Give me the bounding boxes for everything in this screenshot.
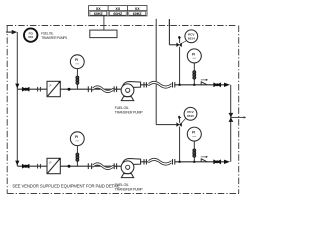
svg-text:F: F <box>50 84 52 88</box>
svg-text:XX: XX <box>135 7 140 11</box>
svg-text:F: F <box>50 161 52 165</box>
svg-text:XX: XX <box>96 7 101 11</box>
svg-text:SEE VENDOR SUPPLIED EQUIPMENT: SEE VENDOR SUPPLIED EQUIPMENT FOR P&ID D… <box>12 184 120 189</box>
svg-text:FUEL OIL: FUEL OIL <box>115 106 129 110</box>
svg-text:6515: 6515 <box>187 114 194 118</box>
svg-text:PI: PI <box>75 135 78 139</box>
svg-text:XX: XX <box>115 7 120 11</box>
svg-text:60HZ: 60HZ <box>113 12 123 16</box>
svg-text:TRANSFER PUMP: TRANSFER PUMP <box>115 111 144 115</box>
svg-text:PI: PI <box>75 58 78 62</box>
svg-text:6514: 6514 <box>188 37 195 41</box>
svg-text:001: 001 <box>28 35 33 39</box>
svg-text:PI: PI <box>192 131 195 135</box>
svg-text:PI: PI <box>192 52 195 56</box>
svg-text:TRANSFER PUMPS: TRANSFER PUMPS <box>41 36 67 40</box>
svg-text:60HZ: 60HZ <box>133 12 143 16</box>
svg-text:60HZ: 60HZ <box>94 12 104 16</box>
